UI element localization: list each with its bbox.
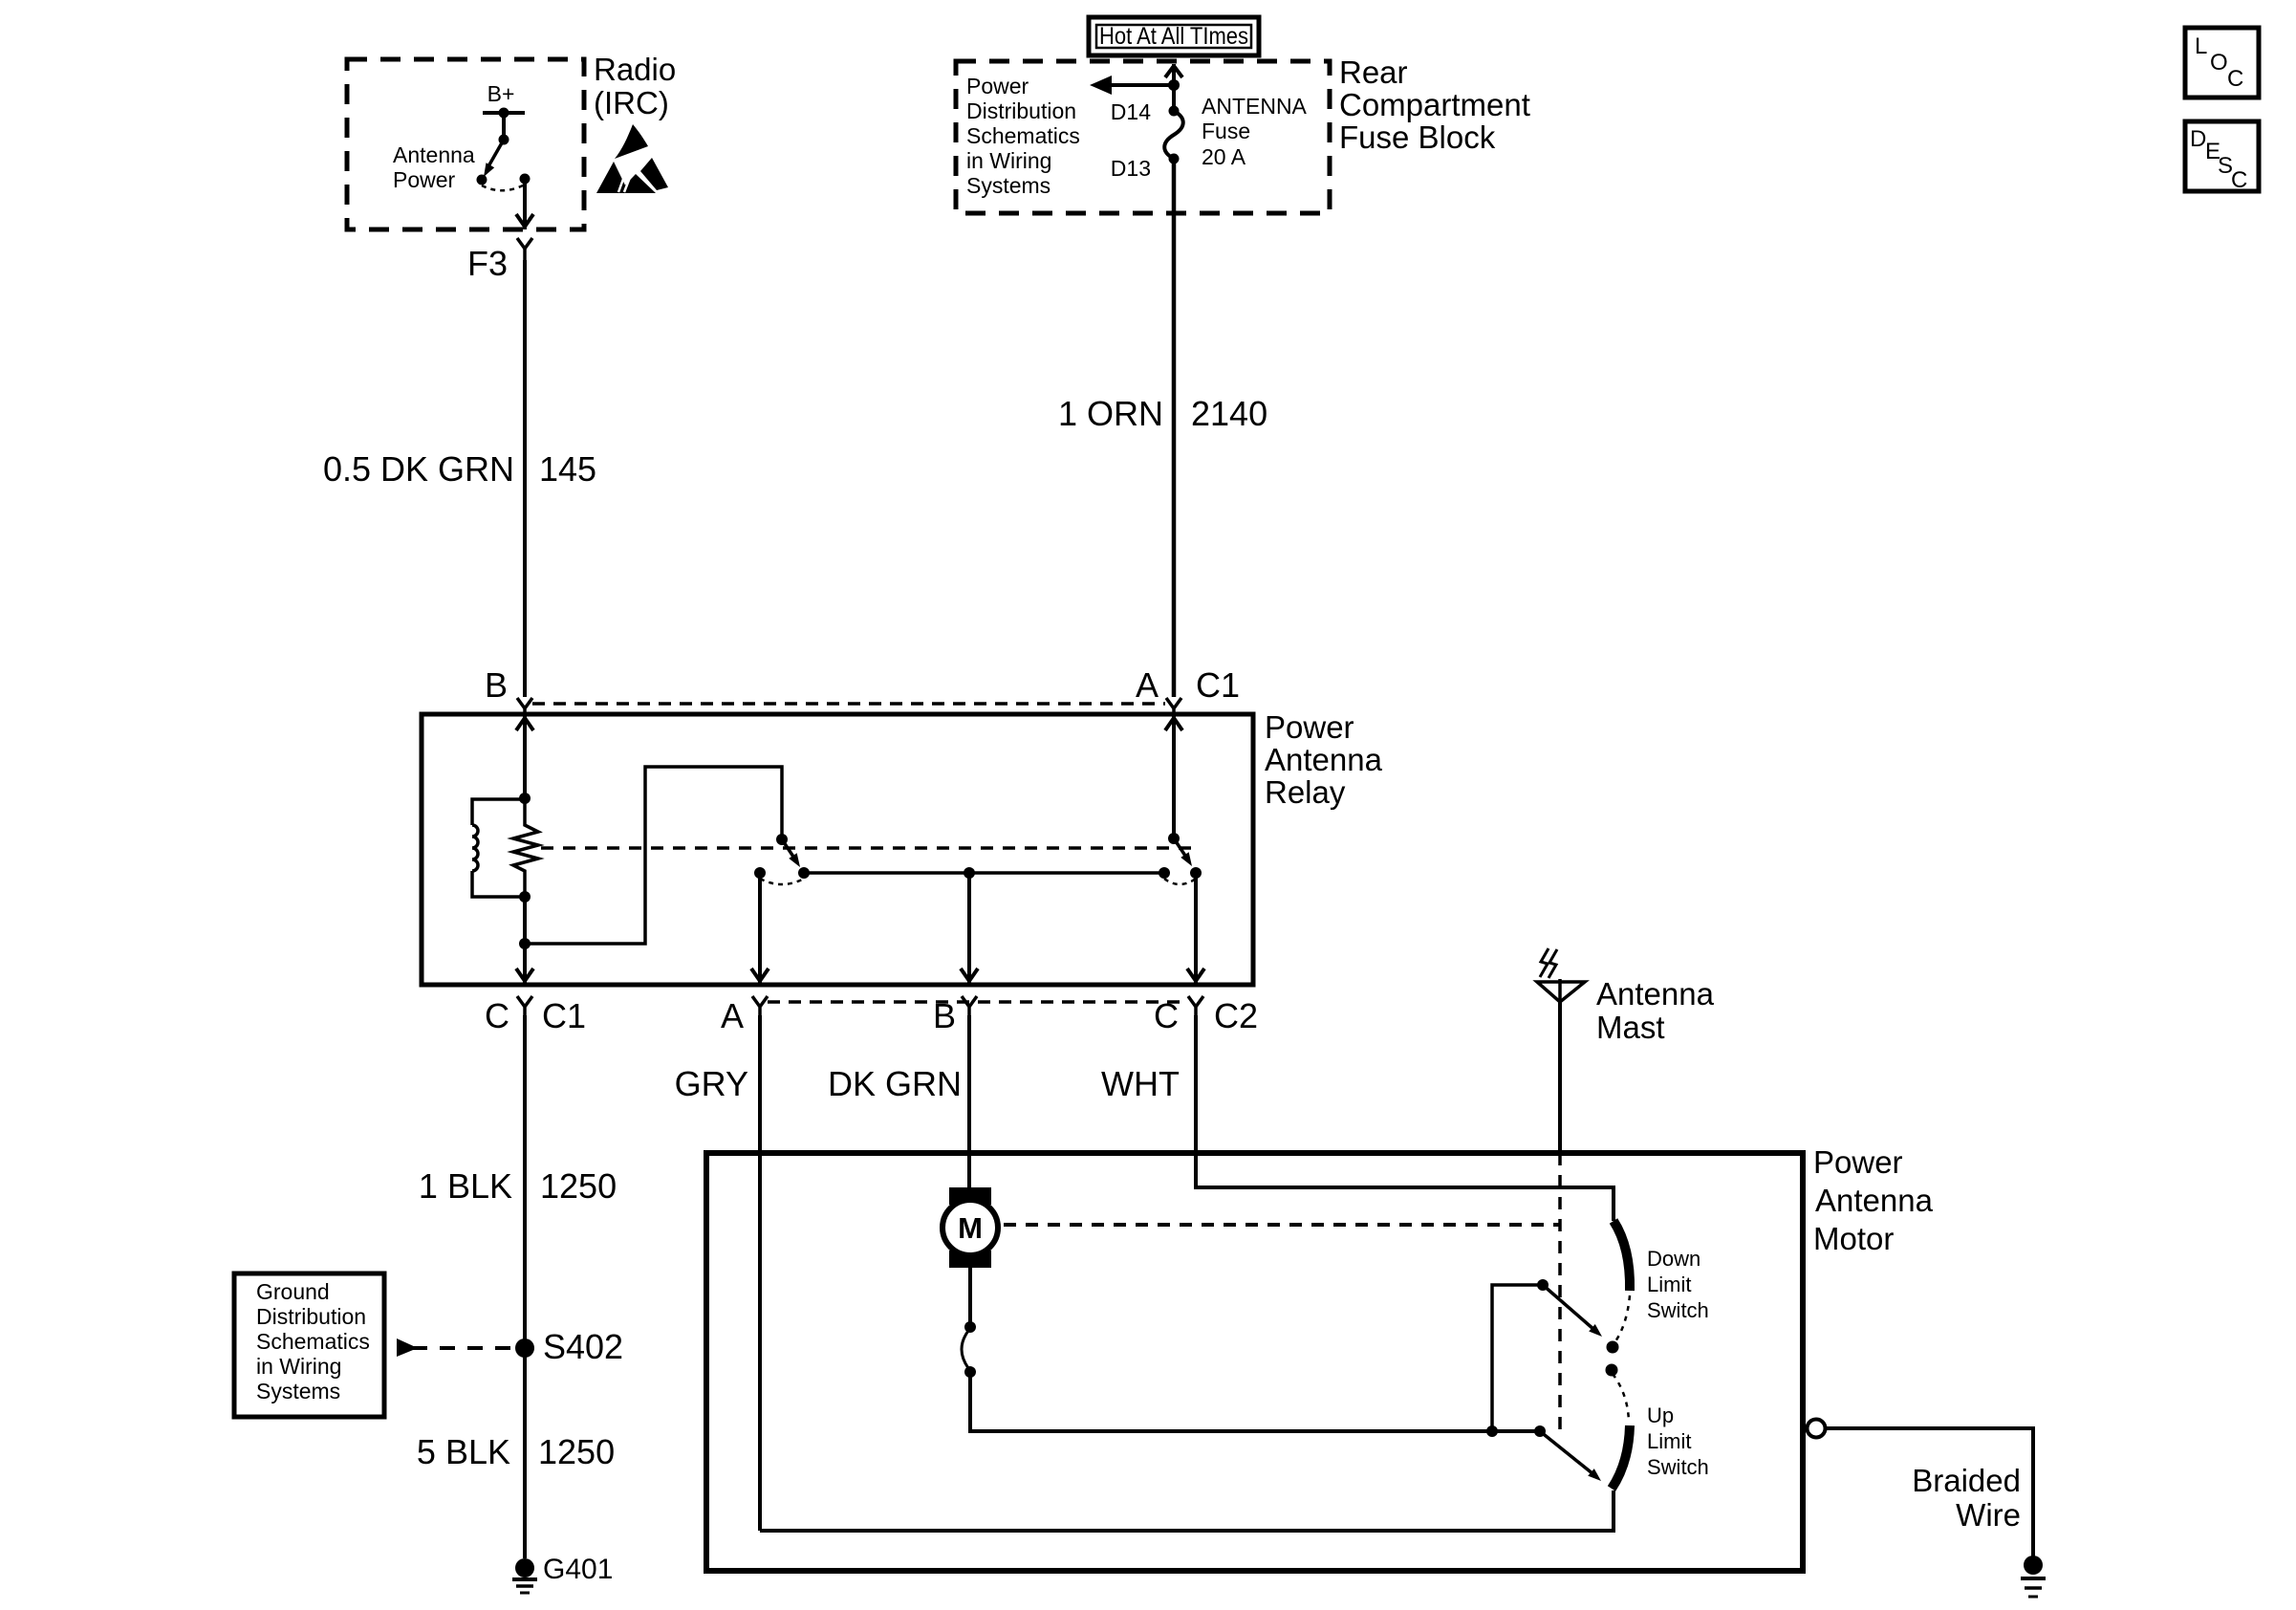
svg-text:20 A: 20 A: [1202, 144, 1246, 169]
svg-text:Compartment: Compartment: [1339, 87, 1530, 122]
svg-text:A: A: [1136, 665, 1159, 705]
label 0.5 DK GRN 145: [323, 449, 596, 489]
connector Y at relay B: [517, 698, 532, 714]
svg-text:D: D: [2190, 126, 2206, 152]
wire 5 BLK 1250 (S402 to G401): [523, 1348, 527, 1558]
wire relay internal link (junction to left switch): [525, 767, 782, 944]
Rear Compartment Fuse Block dashed box: [956, 61, 1330, 213]
node left switch contact A: [754, 867, 766, 879]
connector Y below relay C1: [517, 996, 532, 1015]
connector F3 (Y symbol): [517, 238, 532, 260]
svg-text:D14: D14: [1111, 99, 1151, 124]
svg-text:Distribution: Distribution: [966, 98, 1076, 123]
wire relay pin B internal (entry arrow): [516, 714, 533, 798]
connector Y below relay C (C2): [1188, 996, 1203, 1015]
wire 1 BLK 1250 (relay C to S402): [523, 1015, 527, 1348]
svg-text:1250: 1250: [538, 1432, 615, 1471]
motor M: [942, 1187, 998, 1268]
dashed motor actuation line: [1004, 1223, 1560, 1227]
switch arm relay right: [1174, 838, 1192, 866]
wire tap B down with arrow: [961, 873, 978, 984]
svg-text:G401: G401: [543, 1554, 613, 1585]
svg-text:0.5 DK GRN: 0.5 DK GRN: [323, 449, 514, 489]
svg-text:F3: F3: [467, 244, 508, 283]
dashed throw arc (left relay switch): [760, 879, 804, 884]
svg-text:Wire: Wire: [1956, 1497, 2021, 1533]
node bus end: [1159, 867, 1170, 879]
svg-text:O: O: [2210, 50, 2228, 76]
label Radio (IRC): [594, 52, 676, 120]
label Antenna Mast: [1596, 976, 1715, 1045]
svg-text:1250: 1250: [540, 1166, 617, 1206]
dashed arc to down contact: [1614, 1295, 1630, 1344]
connector Y below relay A (C2): [752, 996, 768, 1015]
svg-text:C: C: [1154, 996, 1179, 1035]
node up-limit thrower: [1534, 1425, 1546, 1437]
svg-text:C: C: [485, 996, 509, 1035]
svg-text:C1: C1: [542, 996, 586, 1035]
wire braided ground strap: [1825, 1428, 2033, 1556]
up limit switch thick contact: [1612, 1425, 1630, 1489]
node up limit contact: [1606, 1364, 1618, 1377]
dashed throw arc (right relay switch): [1164, 879, 1196, 884]
dashed arc to up limit contact: [1613, 1374, 1629, 1422]
ground (braided wire): [2021, 1556, 2046, 1597]
svg-text:Rear: Rear: [1339, 54, 1408, 90]
wire radio output with arrow: [516, 179, 533, 229]
wire contact C2 down with arrow: [1187, 873, 1204, 984]
svg-text:Motor: Motor: [1813, 1221, 1894, 1256]
svg-text:Relay: Relay: [1265, 774, 1346, 810]
switch arm relay left: [782, 839, 800, 867]
svg-text:ANTENNA: ANTENNA: [1202, 94, 1308, 119]
svg-text:Schematics: Schematics: [966, 123, 1080, 148]
node hot bus junction: [1168, 79, 1180, 91]
node coil top: [519, 793, 531, 804]
svg-text:Antenna: Antenna: [393, 142, 475, 167]
wire pin C exit arrow: [516, 968, 533, 981]
Power Antenna Relay box: [422, 714, 1253, 985]
breaker contacts and arc (motor internal switch): [962, 1321, 976, 1378]
svg-text:B: B: [485, 665, 508, 705]
svg-text:Down: Down: [1647, 1247, 1700, 1271]
label 1 BLK 1250: [419, 1166, 617, 1206]
Ground Distribution reference box: [234, 1273, 384, 1417]
connector Y at relay A: [1166, 698, 1181, 714]
node down limit contact: [1607, 1341, 1619, 1354]
svg-text:C: C: [2227, 66, 2243, 92]
svg-text:A: A: [721, 996, 744, 1035]
node switch contact left: [477, 175, 487, 185]
svg-text:Power: Power: [393, 167, 456, 192]
svg-text:M: M: [958, 1211, 983, 1245]
label 5 BLK 1250: [417, 1432, 615, 1471]
svg-text:145: 145: [539, 449, 596, 489]
wire 1 ORN 2140 (fuse to relay A): [1172, 159, 1177, 697]
wire breaker to limit switch feed: [970, 1372, 1540, 1431]
svg-text:Up: Up: [1647, 1403, 1674, 1427]
wire antenna mast down to motor box: [1558, 1002, 1562, 1153]
node splice S402: [515, 1338, 534, 1358]
DESC reference box: [2185, 121, 2259, 193]
node relay internal junction: [519, 938, 531, 949]
svg-text:D13: D13: [1111, 156, 1151, 181]
Hot At All Times banner: [1089, 17, 1259, 55]
svg-text:Power: Power: [966, 74, 1029, 98]
wire relay pin A internal (entry arrow): [1165, 714, 1182, 838]
svg-text:Switch: Switch: [1647, 1298, 1709, 1322]
svg-text:Fuse Block: Fuse Block: [1339, 120, 1496, 155]
braided wire terminal circle: [1808, 1420, 1826, 1438]
wire B+ to switch pivot: [502, 113, 506, 140]
svg-text:Switch: Switch: [1647, 1455, 1709, 1479]
svg-text:C: C: [2231, 167, 2247, 193]
fuse ANTENNA 20 A: [1164, 106, 1183, 164]
radio B+ feed bar: [483, 111, 525, 115]
label Power Distribution Schematics in Wiring Systems: [966, 74, 1080, 198]
svg-text:B+: B+: [487, 81, 515, 106]
node bus tap B: [964, 867, 975, 879]
node right switch contact C2: [1190, 867, 1202, 879]
svg-text:S402: S402: [543, 1327, 623, 1366]
arrow up-limit thrower: [1540, 1431, 1601, 1481]
label Down Limit Switch: [1647, 1247, 1709, 1322]
relay coil (inductor): [472, 799, 525, 897]
wire WHT (relay C to down limit switch): [1196, 1015, 1614, 1221]
label Power Antenna Relay: [1265, 709, 1383, 810]
label Ground Distribution Schematics in Wiring Systems: [256, 1279, 370, 1403]
wire motor to breaker: [968, 1268, 972, 1326]
svg-text:in Wiring: in Wiring: [256, 1354, 341, 1379]
node right switch pivot: [1168, 833, 1180, 844]
ground G401: [512, 1558, 537, 1593]
node coil bottom: [519, 891, 531, 903]
label Rear Compartment Fuse Block: [1339, 54, 1530, 155]
svg-text:DK GRN: DK GRN: [828, 1064, 962, 1103]
svg-text:WHT: WHT: [1101, 1064, 1180, 1103]
dashed ground-distribution link with arrow: [397, 1338, 516, 1357]
wire junction up to down-limit thrower: [1492, 1285, 1543, 1431]
node down-limit thrower: [1537, 1279, 1549, 1291]
wire coil bottom to pin C: [523, 897, 527, 984]
label Braided Wire: [1912, 1463, 2021, 1533]
svg-text:1 ORN: 1 ORN: [1058, 394, 1163, 433]
node left switch contact common: [798, 867, 810, 879]
svg-text:(IRC): (IRC): [594, 85, 669, 120]
svg-text:Schematics: Schematics: [256, 1329, 370, 1354]
wire common bus (left contact to right contact): [804, 871, 1164, 875]
dashed connector line C1 (top of relay): [532, 702, 1165, 706]
LOC reference box: [2185, 28, 2259, 98]
label Power Antenna Motor: [1813, 1144, 1934, 1256]
svg-text:1 BLK: 1 BLK: [419, 1166, 512, 1206]
wire contact A down with arrow: [751, 873, 769, 984]
dashed throw arc (radio switch): [482, 185, 525, 190]
svg-text:GRY: GRY: [675, 1064, 748, 1103]
svg-text:C1: C1: [1196, 665, 1240, 705]
node limit feed junction: [1486, 1425, 1498, 1437]
svg-text:Systems: Systems: [256, 1379, 340, 1403]
svg-text:Antenna: Antenna: [1596, 976, 1715, 1012]
svg-text:Fuse: Fuse: [1202, 119, 1250, 143]
svg-text:Limit: Limit: [1647, 1429, 1691, 1453]
svg-text:Power: Power: [1813, 1144, 1903, 1180]
down limit switch thick contact: [1614, 1221, 1630, 1291]
Power Antenna Motor box: [706, 1153, 1803, 1571]
svg-text:B: B: [933, 996, 956, 1035]
svg-text:Power: Power: [1265, 709, 1354, 745]
label Antenna Power: [393, 142, 475, 192]
label Up Limit Switch: [1647, 1403, 1709, 1479]
svg-text:C2: C2: [1214, 996, 1258, 1035]
node switch pivot: [499, 135, 509, 145]
svg-text:Hot At All TImes: Hot At All TImes: [1099, 23, 1248, 50]
wire 0.5 DK GRN 145 (radio F3 to relay B): [523, 260, 527, 697]
antenna mast symbol: [1537, 948, 1585, 1002]
wire distribution takeoff (left arrow): [1090, 76, 1174, 95]
node switch contact right: [520, 174, 531, 185]
svg-text:in Wiring: in Wiring: [966, 148, 1051, 173]
wire GRY (relay A to motor): [758, 1015, 762, 1531]
label 1 ORN 2140: [1058, 394, 1267, 433]
wire DK GRN (relay B to motor): [967, 1015, 971, 1188]
label ANTENNA Fuse 20 A: [1202, 94, 1308, 169]
wire feed arrow up to hot bus: [1165, 64, 1182, 111]
svg-text:Braided: Braided: [1912, 1463, 2021, 1498]
dashed connector line C2: [768, 1000, 1187, 1004]
node left switch pivot: [776, 834, 788, 845]
switch arm Antenna Power (radio): [484, 140, 504, 177]
svg-text:Systems: Systems: [966, 173, 1051, 198]
wire up-limit to ground run: [760, 1490, 1614, 1531]
svg-text:Ground: Ground: [256, 1279, 330, 1304]
svg-text:L: L: [2195, 33, 2207, 59]
dashed actuation line (relay coil to switches): [541, 846, 1193, 850]
svg-text:Antenna: Antenna: [1265, 742, 1383, 777]
svg-text:Radio: Radio: [594, 52, 676, 87]
svg-text:2140: 2140: [1191, 394, 1267, 433]
dashed mast mechanical link: [1558, 1153, 1562, 1431]
connector Y below relay B (C2): [962, 996, 977, 1015]
svg-text:Antenna: Antenna: [1815, 1183, 1934, 1218]
Radio (IRC) dashed component box: [347, 59, 584, 229]
svg-text:Distribution: Distribution: [256, 1304, 366, 1329]
svg-text:Mast: Mast: [1596, 1010, 1665, 1045]
node B+ junction: [499, 108, 509, 119]
svg-text:Limit: Limit: [1647, 1273, 1691, 1296]
resistor (relay coil shunt): [513, 798, 538, 897]
ESD sensitivity symbol: [596, 124, 668, 193]
arrow down-limit thrower: [1543, 1285, 1602, 1337]
svg-text:5 BLK: 5 BLK: [417, 1432, 510, 1471]
